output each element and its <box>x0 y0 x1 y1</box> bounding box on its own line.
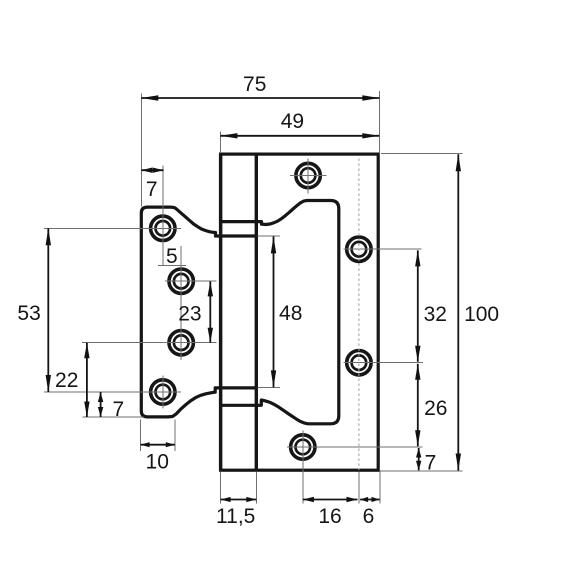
barrel strip right line <box>255 154 258 470</box>
arrow 7tl right <box>153 168 164 173</box>
arrow 100 up <box>456 154 461 171</box>
arrow 7br up <box>416 448 421 458</box>
hole 6 (right leaf upper) <box>347 237 371 261</box>
arrow 32 down <box>415 346 420 362</box>
dim line 75 <box>141 97 379 99</box>
ext left edge vertical (75 / 7 refs) <box>140 94 142 207</box>
dim line 7 top-left <box>141 169 163 171</box>
ext 10 right vertical <box>174 420 176 452</box>
svg-text:49: 49 <box>281 110 304 133</box>
arrow 26 down <box>415 430 420 446</box>
arrow 10 right <box>166 442 175 447</box>
arrow 6 left <box>360 497 368 502</box>
ext 48 bottom horizontal <box>258 386 280 388</box>
hole 2 (left leaf upper mid) <box>169 269 193 293</box>
dim line 48 <box>273 236 275 387</box>
svg-text:7: 7 <box>113 398 125 421</box>
svg-text:22: 22 <box>55 369 78 392</box>
right leaf cutout with knuckle cut lines <box>221 201 339 424</box>
arrow 11,5 left <box>221 497 231 502</box>
dim line 32 <box>417 250 419 361</box>
arrow 48 down <box>271 370 276 387</box>
svg-text:53: 53 <box>17 302 40 325</box>
svg-text:32: 32 <box>424 303 447 326</box>
arrow 10 left <box>141 442 150 447</box>
ext hole5 horizontal crosshair <box>290 175 327 177</box>
dimension texts <box>17 73 499 528</box>
svg-text:5: 5 <box>166 245 178 268</box>
arrow 26 up <box>415 364 420 380</box>
ext hole2/3 vertical (5 ref) <box>180 246 182 360</box>
ext left leaf bottom horizontal (22 / 7 refs) <box>83 416 144 418</box>
arrow 22 down <box>84 402 89 418</box>
arrow 7bl down <box>98 407 103 417</box>
ext centerline below (16 / 6 ref) <box>358 472 360 504</box>
left leaf outline <box>141 207 256 417</box>
ext hole8 vertical (16 ref) <box>302 431 304 504</box>
arrow 16 left <box>303 497 314 502</box>
arrow 49 right <box>362 133 379 138</box>
svg-text:75: 75 <box>243 73 266 96</box>
svg-text:100: 100 <box>464 303 499 326</box>
hole 5 (right leaf top) <box>296 163 320 187</box>
arrow 48 up <box>271 236 276 253</box>
ext strip-left below (11,5 ref) <box>220 472 222 504</box>
hole 8 (right leaf bottom) <box>291 435 315 459</box>
svg-text:10: 10 <box>146 451 169 474</box>
svg-text:26: 26 <box>424 397 447 420</box>
arrow 23 down <box>208 328 213 343</box>
hole 1 (left leaf top) <box>151 216 175 240</box>
dim line 22 <box>86 343 88 417</box>
svg-text:16: 16 <box>318 505 341 528</box>
svg-text:7: 7 <box>146 178 158 201</box>
dim line 5 (plain) <box>158 265 186 267</box>
arrow 6 right <box>372 497 380 502</box>
svg-text:7: 7 <box>425 451 437 474</box>
dim line 100 <box>457 154 459 470</box>
arrow 53 down <box>46 375 51 392</box>
ext hole2 center horizontal (23 ref) <box>165 280 217 282</box>
centerline through holes 6 and 7 (dashed) <box>358 159 360 471</box>
dim line 49 <box>220 135 379 137</box>
arrow 75 right <box>362 95 379 100</box>
arrow 7tl left <box>141 168 152 173</box>
hole 7 (right leaf lower) <box>347 351 371 375</box>
ext hole5 vertical crosshair <box>307 159 309 194</box>
arrow 16 right <box>347 497 358 502</box>
dimension lines <box>48 98 458 500</box>
arrow 53 up <box>46 228 51 245</box>
ext hole6 center horizontal (32 ref) <box>344 248 422 250</box>
dim line 7 bottom-left <box>100 392 102 417</box>
dim line 7 bottom-right <box>418 448 420 470</box>
dim line 16 <box>303 499 358 501</box>
arrowheads <box>46 95 461 502</box>
right leaf rectangle <box>221 154 379 470</box>
ext strip-right below (11,5 ref) <box>255 472 257 504</box>
ext hole7 center horizontal (32 / 26 refs) <box>344 362 424 364</box>
ext hole8 center horizontal (26 / 7 refs) <box>287 446 423 448</box>
svg-text:6: 6 <box>363 505 375 528</box>
hole 3 (left leaf lower mid) <box>169 331 193 355</box>
ext hole3 center horizontal (22 / 23 refs) <box>82 342 216 344</box>
barrel strip left line <box>219 154 222 470</box>
ext hole4 center horizontal (53 / 7 refs) <box>44 391 181 393</box>
ext hole1 center horizontal (53 ref) <box>44 227 181 229</box>
arrow 75 left <box>141 95 158 100</box>
svg-text:48: 48 <box>279 302 302 325</box>
arrow 22 up <box>84 343 89 359</box>
ext 48 top horizontal <box>258 235 280 237</box>
ext hole4 vertical crosshair <box>162 376 164 409</box>
hole 4 (left leaf bottom) <box>151 380 175 404</box>
arrow 32 up <box>415 250 420 266</box>
arrow 23 up <box>208 281 213 296</box>
dim line 10 <box>141 444 175 446</box>
arrow 11,5 right <box>246 497 256 502</box>
thin extension and crosshair lines <box>44 91 463 503</box>
ext hole1 vertical (7 / 5 refs) <box>162 166 164 267</box>
ext top edge horizontal (100 ref) <box>381 152 463 154</box>
arrow 49 left <box>220 133 237 138</box>
dim line 23 <box>209 281 211 342</box>
ext right edge below (6 ref) <box>379 472 381 504</box>
svg-text:23: 23 <box>178 302 201 325</box>
arrow 100 down <box>456 454 461 471</box>
arrow 7br down <box>416 461 421 471</box>
dim line 53 <box>47 228 49 392</box>
ext 10 left vertical <box>140 420 142 452</box>
dim line 11,5 <box>221 499 257 501</box>
dim line 26 <box>417 364 419 447</box>
arrow 7bl up <box>98 392 103 402</box>
ext bottom edge horizontal (100 / 7 refs) <box>380 470 463 472</box>
ext right edge vertical (75/49 refs) <box>379 91 381 154</box>
ext strip-left vertical (49 ref) <box>220 132 222 154</box>
svg-text:11,5: 11,5 <box>216 505 255 528</box>
dim line 6 <box>360 499 379 501</box>
